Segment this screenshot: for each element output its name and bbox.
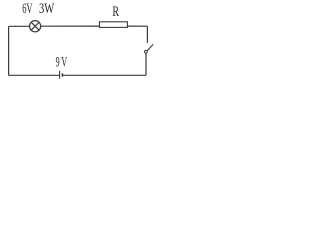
wire right side lower (switch to bottom corner) [145, 53, 147, 75]
battery 9V short plate [61, 73, 63, 76]
svg-text:9 V: 9 V [56, 54, 68, 70]
wire top-left segment [9, 25, 30, 27]
switch S contact circle [145, 50, 148, 53]
wire bottom right segment [63, 74, 146, 76]
switch S blade [147, 44, 153, 50]
svg-text:R: R [112, 4, 119, 20]
svg-text:3W: 3W [39, 1, 55, 17]
wire bottom left segment [9, 74, 60, 76]
resistor R [99, 22, 127, 28]
lamp L (6V 3W) [29, 21, 40, 32]
svg-text:6V: 6V [22, 1, 32, 17]
wire left side [8, 26, 10, 75]
battery 9V long plate [59, 71, 61, 79]
wire right side upper (to switch) [146, 26, 148, 43]
wire resistor to top-right corner [127, 25, 147, 27]
wire lamp to resistor [41, 25, 100, 27]
